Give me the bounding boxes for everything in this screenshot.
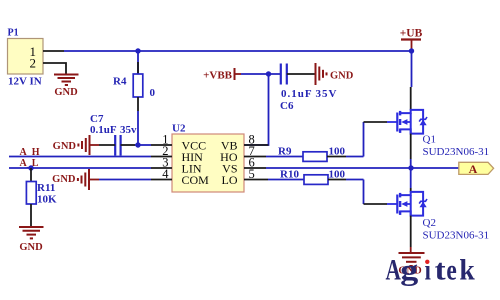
svg-text:SUD23N06-31: SUD23N06-31 xyxy=(423,230,490,242)
svg-text:35V: 35V xyxy=(316,88,338,100)
svg-text:g: g xyxy=(400,253,418,286)
U2 pin 5 xyxy=(244,167,268,181)
wire C7 right plate to U2 pin1 with R4 tap xyxy=(121,144,151,146)
wire top rail from P1 pin1 to +UB corner xyxy=(64,50,412,52)
capacitor C6 xyxy=(280,64,337,113)
ground GND4 at U2 pin 4 (rotated) xyxy=(52,169,99,190)
svg-text:R4: R4 xyxy=(113,76,127,88)
svg-text:GND: GND xyxy=(330,70,354,81)
svg-text:Q1: Q1 xyxy=(423,134,436,146)
svg-text:A: A xyxy=(469,162,478,176)
ground GND3 left of C7 (rotated) xyxy=(53,135,99,155)
power port +VBB xyxy=(203,68,241,82)
P1 pin 1 xyxy=(43,50,64,52)
svg-text:0: 0 xyxy=(150,87,156,99)
svg-text:P1: P1 xyxy=(8,28,19,39)
wire C6 right plate to GND2 xyxy=(287,73,316,75)
P1 pin 2 xyxy=(43,63,66,74)
ground GND1 below P1 pin 2 xyxy=(54,75,79,99)
Q2 source pin xyxy=(410,216,412,247)
wire GND3 to C7 left plate xyxy=(99,144,115,146)
resistor R11 xyxy=(26,168,57,226)
wire phase node down to Q2 drain xyxy=(410,168,412,188)
Q2 drain pin xyxy=(410,188,412,192)
net flag A xyxy=(459,162,494,176)
net label A_H xyxy=(20,147,40,158)
U2 pin 2 xyxy=(151,144,172,158)
svg-text:R11: R11 xyxy=(37,182,55,194)
svg-text:100: 100 xyxy=(329,169,346,181)
capacitor C7 xyxy=(90,113,137,156)
svg-text:0.1uF: 0.1uF xyxy=(281,88,313,100)
svg-text:Q2: Q2 xyxy=(423,217,436,229)
svg-text:GND: GND xyxy=(53,141,77,152)
svg-text:R9: R9 xyxy=(278,146,292,158)
svg-text:U2: U2 xyxy=(172,123,186,135)
net label A_L xyxy=(20,158,39,169)
svg-text:12V IN: 12V IN xyxy=(8,76,42,88)
resistor R10 xyxy=(268,169,364,185)
junction dot VBB/VB node xyxy=(266,71,271,76)
resistor R9 xyxy=(266,146,364,162)
svg-text:SUD23N06-31: SUD23N06-31 xyxy=(423,146,490,158)
wire GND4 to U2 pin 4 xyxy=(99,179,151,181)
svg-text:C6: C6 xyxy=(280,100,294,112)
U2 pin 3 xyxy=(151,156,172,170)
wire net A_H to U2 pin 2 xyxy=(9,156,151,158)
U2 pin 4 xyxy=(151,167,172,181)
Q1 source pin xyxy=(410,134,412,159)
svg-text:10K: 10K xyxy=(37,194,57,206)
ground GND6 below Q2 xyxy=(398,247,424,276)
power port +UB xyxy=(400,28,423,52)
junction dot phase node A xyxy=(408,165,413,170)
wire R9 up to Q1 gate xyxy=(364,122,388,157)
junction dot C7/R4/pin1 node xyxy=(135,142,140,147)
connector P1 xyxy=(8,28,44,88)
svg-text:+UB: +UB xyxy=(400,28,423,40)
ground GND2 right of C6 (rotated) xyxy=(316,63,354,85)
svg-text:GND: GND xyxy=(52,174,76,185)
svg-text:100: 100 xyxy=(329,146,346,158)
svg-text:35v: 35v xyxy=(120,124,137,136)
wire R10 down to Q2 gate xyxy=(364,180,388,205)
svg-text:t: t xyxy=(435,253,447,286)
svg-text:GND: GND xyxy=(54,87,78,98)
wire Q1 source to phase node xyxy=(410,159,412,168)
transistor Q1 xyxy=(397,110,489,158)
svg-text:k: k xyxy=(459,253,474,286)
junction dot A_L / R11 xyxy=(28,165,33,170)
wire from +VBB to C6 xyxy=(241,73,280,75)
svg-text:4: 4 xyxy=(162,167,169,181)
wire net A_L to U2 pin 3 xyxy=(9,167,151,169)
svg-text:ı: ı xyxy=(425,252,431,286)
wire U2 pin 6 (VS) to phase node and flag xyxy=(266,167,459,169)
svg-text:LO: LO xyxy=(222,173,238,187)
svg-text:2: 2 xyxy=(30,56,37,71)
Q1 gate pin stub xyxy=(387,121,397,123)
Q1 drain pin xyxy=(410,87,412,110)
wire +UB down to Q1 drain xyxy=(411,51,413,87)
ground GND5 below R11 xyxy=(19,227,44,253)
junction dot at R4 tap on top rail xyxy=(135,48,140,53)
svg-text:GND: GND xyxy=(19,242,43,253)
U2 pin 7 xyxy=(244,144,266,158)
Q2 gate pin stub xyxy=(387,203,397,205)
junction dot +UB corner xyxy=(409,48,414,53)
svg-text:A: A xyxy=(386,253,402,286)
svg-text:COM: COM xyxy=(182,173,210,187)
U2 pin 8 xyxy=(244,133,269,147)
svg-text:e: e xyxy=(446,253,456,286)
svg-text:+VBB: +VBB xyxy=(203,70,233,82)
U2 pin 6 xyxy=(244,156,266,170)
wire VB node down to U2 pin 8 xyxy=(244,74,269,145)
resistor R4 xyxy=(113,51,156,145)
logo Agitek xyxy=(386,252,475,286)
svg-text:5: 5 xyxy=(249,167,255,181)
IC U2 xyxy=(172,123,244,193)
transistor Q2 xyxy=(397,192,489,242)
U2 pin 1 xyxy=(151,133,172,147)
svg-text:R10: R10 xyxy=(280,169,299,181)
svg-text:0.1uF: 0.1uF xyxy=(90,124,117,136)
